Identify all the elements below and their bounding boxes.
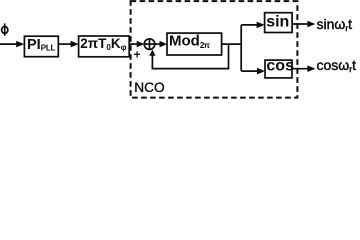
svg-text:sin: sin [266,13,289,30]
svg-text:sinωrt: sinωrt [317,16,353,33]
svg-text:Mod2π: Mod2π [169,33,210,50]
svg-text:cosωrt: cosωrt [317,57,357,74]
wire Mod2pi output to branch node [222,43,242,45]
wire branch to sin box [241,22,264,29]
svg-text:PIPLL: PIPLL [27,37,56,53]
svg-text:2πT0Kφ: 2πT0Kφ [80,36,126,52]
wire cos output arrow [292,65,315,72]
wire input arrow into PI_PLL [0,41,24,48]
block U2 2piT0Kphi gain [79,36,130,57]
wire sin output arrow [292,21,315,28]
wire summer to Mod2pi [155,41,167,48]
summer S1 circle plus [144,39,155,50]
wire feedback loop to summer [149,44,228,69]
block U3 Mod2pi [167,33,222,55]
block U1 PI_PLL [24,36,58,57]
svg-text:NCO: NCO [134,80,164,95]
NCO dashed boundary box [131,1,298,98]
node phi input label [2,23,8,35]
block U5 cos lookup [265,60,292,78]
block U4 sin lookup [265,13,293,33]
wire 2piT0Kphi to summer [129,41,144,48]
wire branch vertical to sin and cos [240,25,242,71]
wire branch to cos box [241,68,265,75]
svg-text:+: + [134,47,141,61]
wire PI_PLL to 2piT0Kphi [58,41,78,48]
svg-text:cos: cos [266,57,294,74]
